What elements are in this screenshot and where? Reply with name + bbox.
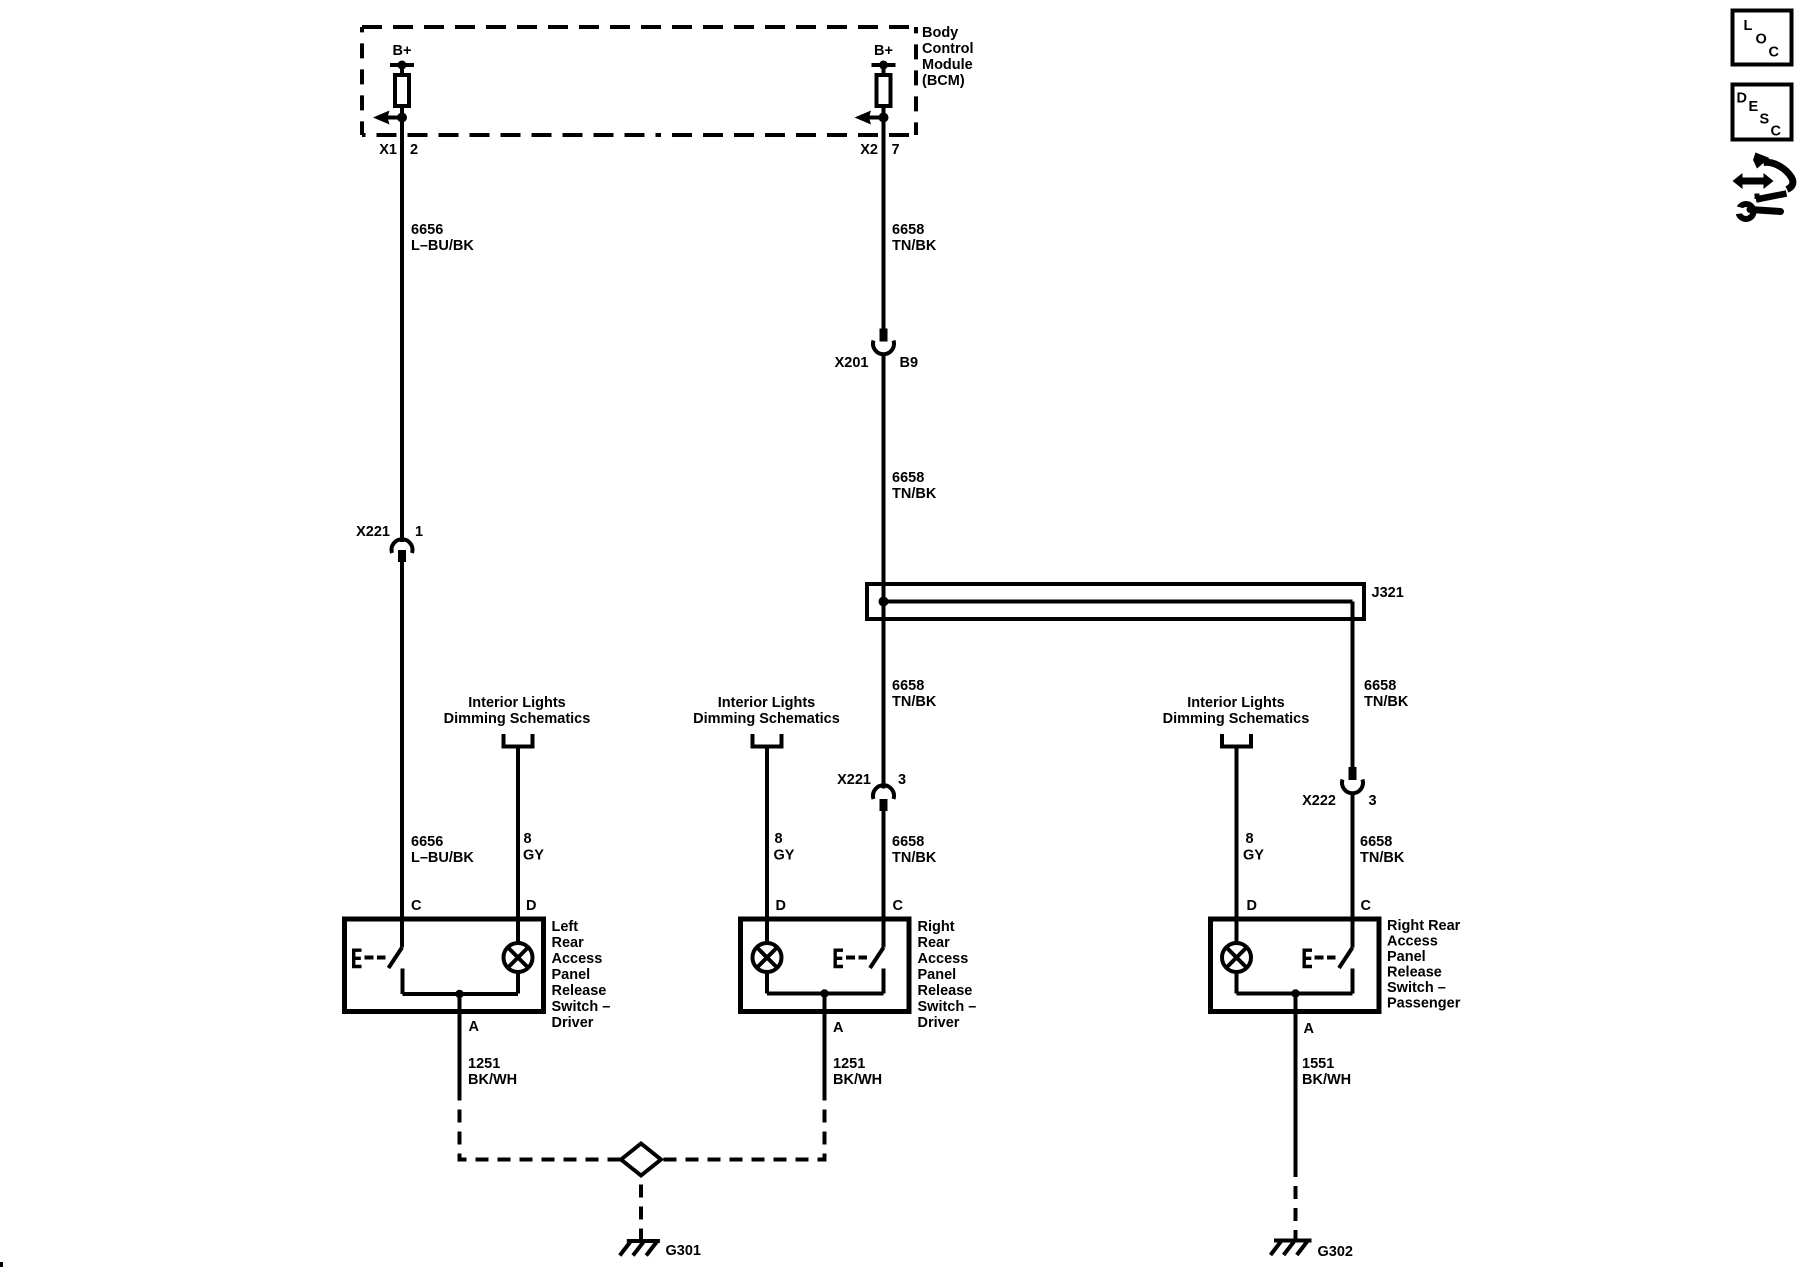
svg-text:GY: GY [523, 848, 544, 864]
svg-text:6658: 6658 [892, 678, 924, 694]
svg-text:G302: G302 [1318, 1244, 1353, 1260]
LOC icon box [1733, 11, 1792, 65]
label 1251 BK/WH (middle) [833, 1056, 882, 1088]
switch S3 contacts [1339, 919, 1353, 994]
junction dot (left box) [455, 990, 463, 998]
svg-text:A: A [469, 1019, 480, 1035]
junction dot (middle box) [820, 989, 828, 997]
off-page ref: Interior Lights Dimming Schematics (middle) [693, 695, 840, 747]
svg-text:2: 2 [410, 142, 418, 158]
wire 6658 (J321 right branch down to X222) [1351, 602, 1355, 768]
BCM label [922, 25, 974, 89]
svg-text:BK/WH: BK/WH [468, 1072, 517, 1088]
svg-text:E: E [1749, 99, 1759, 115]
wire 6658 (X221-3 down to middle switch C) [882, 811, 886, 919]
splice pack J321 [867, 584, 1404, 619]
svg-text:Right: Right [918, 919, 955, 935]
svg-text:D: D [1247, 898, 1257, 914]
svg-text:C: C [1361, 898, 1372, 914]
label 8 GY (right) [1243, 831, 1264, 864]
label 1551 BK/WH (right) [1302, 1056, 1351, 1088]
lamp (left box illumination) [504, 919, 533, 994]
svg-text:Release: Release [552, 983, 607, 999]
middle box description label [918, 919, 977, 1031]
off-page ref: Interior Lights Dimming Schematics (right) [1163, 695, 1310, 747]
svg-text:B+: B+ [874, 43, 893, 59]
svg-text:Switch –: Switch – [1387, 980, 1446, 996]
DESC icon box [1733, 85, 1792, 140]
svg-text:6658: 6658 [1360, 834, 1392, 850]
connector X222 pin 3 [1302, 767, 1376, 809]
svg-text:BK/WH: BK/WH [833, 1072, 882, 1088]
svg-text:Dimming Schematics: Dimming Schematics [444, 711, 591, 727]
svg-text:L: L [1744, 18, 1753, 34]
wire 6658 (X222 down to right switch C) [1351, 793, 1355, 919]
arrow to BCM internal (left) [373, 111, 402, 125]
svg-text:B9: B9 [900, 355, 919, 371]
wire 6658 (BCM X2-7 down to X201) [882, 118, 886, 329]
label 6658 TN/BK (above middle box C) [892, 834, 937, 866]
page speck [0, 1262, 3, 1267]
svg-text:X1: X1 [379, 142, 397, 158]
svg-text:D: D [526, 898, 536, 914]
switch S1 contacts [389, 919, 403, 994]
svg-text:L–BU/BK: L–BU/BK [411, 238, 474, 254]
svg-text:Body: Body [922, 25, 958, 41]
label 6658 TN/BK (below J321, center) [892, 678, 937, 710]
svg-text:Interior Lights: Interior Lights [1187, 695, 1284, 711]
svg-text:Release: Release [1387, 965, 1442, 981]
svg-text:TN/BK: TN/BK [892, 238, 937, 254]
svg-text:8: 8 [524, 831, 532, 847]
label 8 GY (middle) [774, 831, 795, 864]
svg-text:Interior Lights: Interior Lights [468, 695, 565, 711]
label 1251 BK/WH (left) [468, 1056, 517, 1088]
svg-text:Switch –: Switch – [918, 999, 977, 1015]
svg-text:Module: Module [922, 57, 973, 73]
svg-text:TN/BK: TN/BK [1364, 694, 1409, 710]
svg-text:6658: 6658 [892, 470, 924, 486]
svg-text:6658: 6658 [892, 222, 924, 238]
pin label X2 7 [860, 142, 899, 158]
lamp (right box illumination) [1222, 919, 1251, 994]
connector X221 pin 1 [356, 524, 423, 562]
svg-text:1551: 1551 [1302, 1056, 1334, 1072]
svg-text:A: A [1304, 1021, 1315, 1037]
svg-text:Access: Access [1387, 934, 1438, 950]
right rear access panel release switch (driver) box [741, 919, 910, 1012]
svg-text:Dimming Schematics: Dimming Schematics [1163, 711, 1310, 727]
svg-text:Panel: Panel [1387, 949, 1426, 965]
svg-text:G301: G301 [666, 1243, 701, 1259]
dashed ground wire (middle box A to splice) [661, 1097, 825, 1160]
wire 6658 (X201 down through J321 to X221) [882, 353, 886, 789]
svg-text:Right Rear: Right Rear [1387, 918, 1461, 934]
label 6656 L-BU/BK (upper) [411, 222, 474, 254]
svg-text:X201: X201 [835, 355, 869, 371]
svg-text:Control: Control [922, 41, 974, 57]
junction dot (right box) [1291, 989, 1299, 997]
svg-text:J321: J321 [1372, 585, 1404, 601]
svg-text:Dimming Schematics: Dimming Schematics [693, 711, 840, 727]
right rear access panel release switch (passenger) box [1211, 919, 1380, 1012]
junction dot (left) [397, 113, 407, 123]
svg-text:Driver: Driver [918, 1015, 960, 1031]
svg-text:D: D [1737, 91, 1747, 107]
wire 6656 (BCM X1-2 down to X221) [400, 118, 404, 543]
dashed wire (splice to G301) [639, 1176, 643, 1240]
svg-text:C: C [1771, 124, 1782, 140]
dashed ground wire (right box A to G302) [1294, 1177, 1298, 1239]
wire to pin A (right box) [1294, 994, 1298, 1178]
svg-text:Interior Lights: Interior Lights [718, 695, 815, 711]
svg-text:6656: 6656 [411, 222, 443, 238]
dashed ground wire (left box A to splice) [460, 1097, 622, 1160]
switch S2 (middle box): E actuator [834, 949, 868, 969]
svg-text:X2: X2 [860, 142, 878, 158]
svg-text:TN/BK: TN/BK [892, 694, 937, 710]
left rear access panel release switch (driver) box [345, 919, 544, 1012]
switch S2 contacts [870, 919, 884, 994]
label 8 GY (left) [523, 831, 544, 864]
svg-text:S: S [1760, 112, 1770, 128]
label 6658 TN/BK (above right box C) [1360, 834, 1405, 866]
ground G302 [1271, 1241, 1353, 1261]
label 6658 TN/BK (above J321) [892, 470, 937, 502]
svg-text:TN/BK: TN/BK [892, 850, 937, 866]
wire to pin A (left box) [458, 994, 462, 1097]
left box description label [552, 919, 611, 1031]
svg-text:1251: 1251 [833, 1056, 865, 1072]
wire 8 GY (middle, to lamp D) [765, 749, 769, 920]
BCM dashed box U1 [362, 27, 916, 135]
svg-text:L–BU/BK: L–BU/BK [411, 850, 474, 866]
svg-text:C: C [893, 898, 904, 914]
svg-text:3: 3 [898, 772, 906, 788]
arrow to BCM internal (right) [855, 111, 884, 125]
svg-text:C: C [1769, 45, 1780, 61]
wire 8 GY (right, to lamp D) [1235, 749, 1239, 920]
junction dot (right) [879, 113, 889, 123]
svg-text:Access: Access [552, 951, 603, 967]
svg-text:X221: X221 [837, 772, 871, 788]
svg-text:A: A [833, 1020, 844, 1036]
svg-text:C: C [411, 898, 422, 914]
wire 8 GY (left, to switch D) [516, 749, 520, 920]
svg-text:Release: Release [918, 983, 973, 999]
svg-text:O: O [1756, 32, 1767, 48]
svg-text:3: 3 [1369, 793, 1377, 809]
splice diamond [621, 1144, 661, 1176]
svg-text:TN/BK: TN/BK [1360, 850, 1405, 866]
label 6658 TN/BK (upper) [892, 222, 937, 254]
label 6656 L-BU/BK (lower) [411, 834, 474, 866]
svg-text:Passenger: Passenger [1387, 996, 1461, 1012]
switch S3 (right box): E actuator [1303, 949, 1336, 969]
internal bottom wire (middle box) [767, 992, 884, 996]
svg-text:X222: X222 [1302, 793, 1336, 809]
svg-text:TN/BK: TN/BK [892, 486, 937, 502]
svg-text:Left: Left [552, 919, 579, 935]
wire to pin A (middle box) [823, 994, 827, 1098]
svg-text:6656: 6656 [411, 834, 443, 850]
svg-text:GY: GY [1243, 848, 1264, 864]
navigation icon (double arrow, curved arrow, wrench) [1733, 153, 1793, 220]
svg-text:Switch –: Switch – [552, 999, 611, 1015]
svg-text:Panel: Panel [552, 967, 591, 983]
svg-text:Panel: Panel [918, 967, 957, 983]
svg-text:6658: 6658 [1364, 678, 1396, 694]
connector X201 pin B9 [835, 329, 918, 372]
svg-text:7: 7 [892, 142, 900, 158]
ground G301 [620, 1241, 701, 1259]
svg-text:(BCM): (BCM) [922, 73, 965, 89]
connector X221 pin 3 [837, 772, 906, 811]
svg-text:BK/WH: BK/WH [1302, 1072, 1351, 1088]
svg-text:6658: 6658 [892, 834, 924, 850]
svg-text:Rear: Rear [918, 935, 951, 951]
svg-text:8: 8 [1246, 831, 1254, 847]
svg-text:Driver: Driver [552, 1015, 594, 1031]
svg-text:1251: 1251 [468, 1056, 500, 1072]
svg-text:B+: B+ [393, 43, 412, 59]
switch S1 (left box): E actuator [352, 949, 386, 969]
svg-text:D: D [776, 898, 786, 914]
label 6658 TN/BK (right branch upper) [1364, 678, 1409, 710]
svg-text:X221: X221 [356, 524, 390, 540]
svg-text:1: 1 [415, 524, 423, 540]
internal bottom wire (right box) [1237, 992, 1353, 996]
internal bottom wire (left box) [403, 992, 519, 996]
fuse F1 (left B+ fuse in BCM) [390, 61, 414, 118]
pin label X1 2 [379, 142, 418, 158]
lamp (middle box illumination) [753, 919, 782, 994]
svg-text:8: 8 [775, 831, 783, 847]
wire 6656 (X221 down to switch C) [400, 562, 404, 919]
svg-text:GY: GY [774, 848, 795, 864]
svg-text:Access: Access [918, 951, 969, 967]
fuse F2 (right B+ fuse in BCM) [872, 61, 896, 118]
off-page ref: Interior Lights Dimming Schematics (left) [444, 695, 591, 747]
svg-text:Rear: Rear [552, 935, 585, 951]
right box description label [1387, 918, 1461, 1012]
